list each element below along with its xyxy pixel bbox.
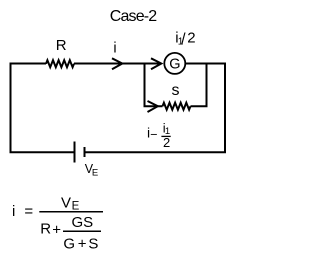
svg-text:2: 2 [163,135,170,150]
formula main fraction bar [39,211,103,213]
arrow shunt current [148,101,158,112]
wire right vertical [224,64,226,153]
svg-text:+: + [78,236,87,253]
arrow current i [112,58,122,69]
formula nested fraction bar [63,230,101,232]
wire top left segment [10,63,47,65]
svg-text:=: = [24,203,33,220]
svg-text:/: / [181,31,186,48]
arrow into galvanometer [151,58,161,69]
wire shunt branch right vertical [206,64,208,107]
svg-text:i: i [12,203,15,220]
svg-text:V: V [61,194,71,211]
svg-text:i: i [113,41,116,57]
wire galvanometer to right corner [185,63,226,65]
formula i = VE over R plus GS over G plus S [12,194,103,252]
label i minus i1 over 2 [147,120,171,150]
svg-text:R: R [40,220,51,237]
resistor R [46,60,74,67]
svg-text:G: G [169,57,180,73]
wire bottom left segment [10,151,75,153]
svg-text:E: E [72,201,80,213]
svg-text:G: G [63,236,75,253]
battery VE short plate [84,147,86,157]
svg-text:s: s [172,82,180,99]
svg-text:−: − [150,128,157,142]
wire top middle segment [74,63,161,65]
svg-text:2: 2 [187,30,195,47]
wire shunt branch left vertical [144,64,146,107]
wire shunt bottom right segment [191,105,208,107]
svg-text:Case-2: Case-2 [110,8,157,25]
svg-text:R: R [56,37,67,54]
resistor S shunt [163,103,191,110]
svg-text:E: E [92,167,98,178]
svg-text:+: + [52,222,61,239]
svg-text:GS: GS [72,214,94,231]
svg-text:S: S [88,236,98,253]
wire shunt bottom left segment [144,105,163,107]
wire left vertical [10,64,12,153]
galvanometer U1 circle [164,53,185,74]
wire bottom right segment [85,151,227,153]
battery VE long plate [74,142,76,163]
